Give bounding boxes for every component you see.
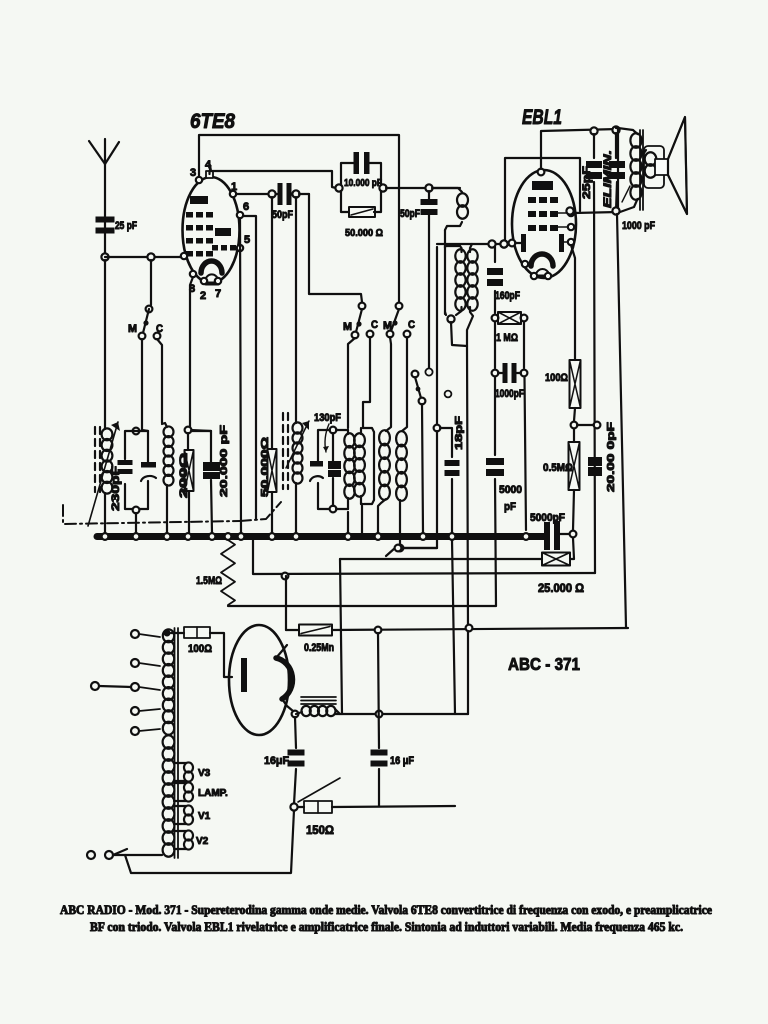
svg-text:1: 1	[231, 181, 237, 193]
svg-text:C: C	[371, 319, 378, 331]
svg-text:18pF: 18pF	[453, 415, 465, 450]
svg-text:20.000 pF: 20.000 pF	[218, 424, 230, 497]
svg-text:1000pF: 1000pF	[495, 388, 524, 400]
svg-text:V1: V1	[198, 811, 211, 822]
svg-text:50pF: 50pF	[272, 209, 293, 221]
svg-text:M: M	[343, 321, 352, 333]
svg-text:M: M	[128, 323, 137, 335]
svg-text:100Ω: 100Ω	[545, 372, 568, 384]
svg-text:130pF: 130pF	[314, 412, 341, 424]
svg-text:0.5MΩ: 0.5MΩ	[543, 462, 573, 474]
svg-text:3: 3	[190, 167, 196, 179]
svg-text:V2: V2	[196, 836, 209, 847]
svg-text:25pF: 25pF	[581, 166, 593, 199]
svg-text:5: 5	[244, 234, 250, 246]
svg-text:10.000 pF: 10.000 pF	[344, 177, 382, 189]
svg-text:50.000Ω: 50.000Ω	[259, 437, 271, 497]
svg-text:25 pF: 25 pF	[115, 220, 137, 232]
svg-text:1 MΩ: 1 MΩ	[496, 332, 518, 344]
svg-text:6TE8: 6TE8	[190, 110, 235, 133]
svg-text:0.25Mn: 0.25Mn	[304, 642, 334, 654]
svg-text:EBL1: EBL1	[522, 106, 562, 129]
svg-text:20.00 0pF: 20.00 0pF	[605, 421, 617, 492]
svg-text:16 μF: 16 μF	[390, 755, 414, 767]
svg-text:M: M	[383, 320, 392, 332]
svg-text:2: 2	[200, 290, 206, 302]
svg-text:ABC - 371: ABC - 371	[508, 654, 580, 674]
svg-text:pF: pF	[504, 501, 516, 513]
svg-text:1000 pF: 1000 pF	[622, 220, 655, 232]
svg-text:C: C	[408, 319, 415, 331]
svg-text:6: 6	[243, 201, 249, 213]
svg-text:50pF: 50pF	[400, 208, 420, 220]
svg-text:5000pF: 5000pF	[530, 512, 565, 524]
svg-text:50.000 Ω: 50.000 Ω	[345, 227, 383, 239]
svg-text:150Ω: 150Ω	[306, 823, 334, 837]
svg-text:100Ω: 100Ω	[188, 643, 212, 655]
svg-text:V3: V3	[198, 768, 211, 779]
svg-text:7: 7	[215, 288, 221, 300]
svg-text:ABC RADIO - Mod. 371 - Superet: ABC RADIO - Mod. 371 - Supereterodina ga…	[60, 903, 712, 917]
svg-text:5000: 5000	[499, 484, 522, 496]
svg-text:BF con triodo. Valvola EBL1 ri: BF con triodo. Valvola EBL1 rivelatrice …	[90, 920, 683, 934]
svg-text:160pF: 160pF	[495, 290, 520, 302]
svg-text:25.000 Ω: 25.000 Ω	[538, 583, 584, 595]
svg-text:LAMP.: LAMP.	[198, 788, 228, 799]
svg-text:16μF: 16μF	[264, 755, 289, 767]
svg-text:1.5MΩ: 1.5MΩ	[196, 575, 222, 587]
svg-text:C: C	[156, 323, 163, 335]
